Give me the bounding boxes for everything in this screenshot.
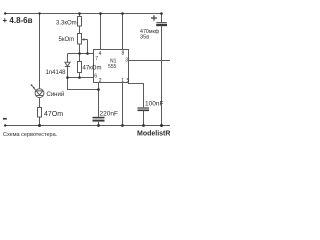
svg-text:220nF: 220nF: [100, 111, 118, 118]
svg-text:1: 1: [121, 78, 124, 84]
svg-text:2: 2: [99, 78, 102, 84]
svg-text:5: 5: [127, 78, 130, 84]
svg-text:1n4148: 1n4148: [46, 70, 67, 76]
svg-text:Схема сервотестера.: Схема сервотестера.: [3, 132, 58, 138]
svg-text:Синий: Синий: [47, 91, 65, 98]
svg-text:+ 4.8-6в: + 4.8-6в: [3, 16, 33, 25]
svg-text:47кOm: 47кOm: [83, 66, 102, 72]
svg-text:47Om: 47Om: [44, 111, 63, 118]
svg-text:555: 555: [108, 64, 117, 70]
svg-text:7: 7: [95, 56, 98, 62]
svg-text:8: 8: [122, 51, 125, 57]
svg-text:3.3кOm: 3.3кOm: [56, 21, 77, 27]
svg-text:ModelistRC: ModelistRC: [137, 130, 170, 137]
svg-text:35в: 35в: [140, 34, 149, 40]
svg-text:6: 6: [94, 73, 97, 79]
svg-text:3: 3: [125, 58, 128, 64]
svg-text:5кOm: 5кOm: [59, 37, 75, 43]
svg-text:100nF: 100nF: [145, 101, 163, 108]
svg-text:4: 4: [99, 51, 102, 57]
